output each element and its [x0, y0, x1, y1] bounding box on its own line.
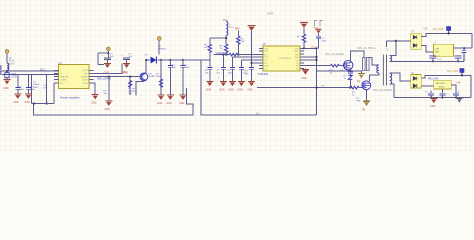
svg-text:U?: U? [59, 61, 63, 65]
wire E2 gate resistor [304, 65, 330, 67]
wire VCC to riser [304, 47, 316, 49]
cap col x241.4 [239, 60, 248, 81]
diode pack D5 upper (yellow) [411, 31, 422, 50]
ground tan (PE snubber) [357, 71, 365, 84]
wire DTC [232, 56, 263, 58]
svg-text:VIN VOUT: VIN VOUT [436, 83, 447, 85]
svg-text:PE: PE [362, 108, 366, 111]
power flag (+15V) [447, 27, 451, 35]
cap col x209.8 lower [205, 60, 212, 81]
svg-text:VCC_AUX: VCC_AUX [447, 70, 459, 73]
cap x465.4 (lower blk) [451, 85, 462, 103]
ground (E1 pin) [301, 69, 309, 80]
svg-text:CS: CS [340, 69, 344, 71]
svg-text:BUS_AS_HVRET: BUS_AS_HVRET [374, 89, 393, 92]
wire N line [2, 73, 59, 75]
svg-text:VCC_P15: VCC_P15 [433, 28, 444, 31]
transformer secondary upper [390, 55, 392, 61]
svg-text:GND: GND [105, 108, 111, 111]
svg-text:250V: 250V [9, 62, 15, 65]
wire source return [317, 70, 362, 72]
svg-text:VDD: VDD [83, 70, 88, 72]
ground (cap A) [14, 94, 21, 99]
svg-text:GND/PE: GND/PE [60, 77, 69, 79]
svg-text:(CONTROL): (CONTROL) [279, 58, 291, 60]
wire top divider link [210, 37, 226, 39]
svg-text:House regulator: House regulator [60, 95, 80, 99]
wire into D5 [386, 40, 410, 42]
svg-text:AC_L: AC_L [40, 68, 47, 71]
svg-text:REF: REF [235, 29, 240, 31]
gnd bus under IC1 [31, 103, 54, 105]
svg-text:VREF: VREF [267, 13, 274, 16]
transformer secondary lower [390, 73, 392, 84]
cap leg x184.5 [181, 59, 191, 95]
cap col x223.3 [216, 54, 225, 82]
X-cap C column B (x28.4) [26, 74, 36, 94]
svg-text:GND: GND [248, 88, 254, 91]
svg-text:GND: GND [91, 102, 97, 105]
cap column x31.3 [31, 74, 40, 103]
wire VDD riser [89, 63, 122, 73]
svg-text:12V: 12V [122, 71, 127, 74]
wire Q1 collector [145, 60, 147, 73]
DRAIN wire with red label [89, 76, 139, 78]
regulator U3 (yellow) [428, 79, 451, 89]
svg-text:VSENSE_A: VSENSE_A [216, 52, 229, 55]
wire drain to primary [369, 58, 379, 66]
svg-text:+5V: +5V [456, 83, 461, 85]
wire secondary lower top tap [390, 73, 411, 81]
cap x458.2 (upper blk) [455, 56, 467, 63]
wire D6 out to +rail lower [421, 75, 471, 77]
connector J1 (AC inlet, cut at sheet edge) [0, 50, 15, 75]
wire D5 out lower to filter [421, 46, 433, 53]
resistor R x238.3 [235, 29, 245, 56]
power flag lower [460, 69, 464, 77]
wire secondary top tap [390, 41, 396, 56]
svg-text:GND: GND [430, 105, 436, 108]
cap x445.3 (lower blk) [439, 89, 449, 99]
cap x432.8 (upper blk) [429, 56, 443, 63]
ground (AC entry) [4, 80, 11, 85]
svg-text:GND: GND [104, 71, 110, 74]
svg-text:100u: 100u [229, 27, 235, 29]
svg-text:100n: 100n [437, 59, 443, 61]
svg-text:GND: GND [24, 101, 30, 104]
inductor L1 (series choke) [7, 63, 9, 70]
svg-text:GND: GND [264, 66, 269, 68]
svg-text:BUS_AS_HVDC+: BUS_AS_HVDC+ [358, 47, 377, 50]
ground (x232.4) [229, 81, 236, 86]
IC U2 TL594 PWM controller [258, 42, 305, 76]
svg-text:100n: 100n [228, 72, 234, 74]
return wire upper blk [393, 60, 464, 62]
riser bus (emitters) [316, 48, 318, 115]
svg-text:U?: U? [263, 42, 267, 46]
svg-text:GND: GND [83, 83, 88, 85]
wire L line [0, 70, 59, 72]
svg-text:100n: 100n [321, 40, 327, 42]
rail jog to divider [157, 59, 209, 61]
cap x428.2 (lower blk) [425, 91, 434, 99]
transistor Q2 MOSFET high [344, 61, 353, 70]
transformer core [382, 55, 384, 86]
net label top right of IC [315, 21, 318, 27]
filter module L2 (yellow) [434, 42, 454, 56]
ground (x223.3) [220, 81, 227, 86]
ground (IC1 right) [92, 95, 99, 100]
ground (x209.8) [206, 81, 213, 86]
svg-text:TL594CN: TL594CN [258, 73, 269, 76]
node drain-div [108, 76, 110, 78]
svg-text:DTC: DTC [264, 57, 269, 59]
power port VCC col x304 [297, 23, 308, 50]
X-cap C column A (x17) [15, 74, 24, 94]
snubber R column [363, 58, 370, 71]
bottom return bus [34, 88, 193, 115]
svg-text:1nF: 1nF [43, 88, 47, 90]
svg-text:UF4007: UF4007 [158, 48, 167, 50]
wire feedback into IC pin 1IN+ [214, 54, 229, 56]
svg-text:GND: GND [228, 88, 234, 91]
ground (divider) [105, 101, 112, 106]
svg-text:CM: CM [435, 48, 439, 50]
cap column x46.7 [43, 74, 48, 104]
wire GND pin right [89, 83, 95, 95]
svg-text:100n: 100n [19, 89, 25, 91]
svg-text:FILT: FILT [435, 51, 440, 53]
wire Q3 source [366, 90, 368, 102]
wire PE drop [6, 53, 8, 71]
wire gate low w/ resistor [257, 87, 350, 89]
ground (cap x170) [167, 95, 174, 100]
svg-text:+15V: +15V [423, 29, 429, 31]
resistor series (on wire) [229, 53, 238, 56]
svg-text:1IN-: 1IN- [264, 51, 268, 53]
resistor leg x162.5 [156, 59, 163, 95]
cap column x53.8 [53, 83, 55, 104]
svg-text:GND: GND [157, 102, 163, 105]
svg-text:GND: GND [237, 88, 243, 91]
svg-text:COMP: COMP [60, 80, 67, 82]
ground (cap x183) [180, 95, 187, 100]
wire primary bottom [369, 73, 379, 81]
svg-text:GND: GND [3, 86, 9, 90]
ground (cap B) [25, 94, 32, 99]
svg-text:REG_P5V: REG_P5V [428, 79, 439, 81]
transistor Q3 MOSFET low [362, 81, 371, 90]
svg-text:VCC: VCC [295, 48, 300, 50]
resistor divider leg [104, 77, 109, 101]
wire Q2 source [349, 68, 351, 71]
svg-text:GND: GND [219, 88, 225, 91]
wire CT [241, 59, 263, 61]
wire D6 lower out to regulator [421, 85, 434, 87]
varistor RV1 [5, 71, 18, 79]
svg-text:DRAIN: DRAIN [81, 76, 88, 79]
IC U1 house regulator [54, 61, 94, 100]
ground (x241.4) [238, 81, 245, 86]
diode pack D6 lower (yellow) [411, 72, 422, 88]
svg-text:275V: 275V [12, 76, 18, 79]
svg-text:GND: GND [206, 88, 212, 91]
return rail lower blk [394, 97, 471, 99]
bulk cap C (pol) B [121, 53, 133, 74]
ground (x251.5) [248, 81, 255, 86]
node PE [6, 70, 8, 72]
decoupling cap above VCC wire [314, 28, 328, 48]
wire filter out [454, 47, 472, 49]
wire Q2 drain up [350, 51, 364, 63]
svg-text:PE: PE [357, 81, 361, 84]
ground (lower blk) [430, 98, 437, 103]
svg-text:SD/S: SD/S [82, 80, 88, 82]
svg-text:GND: GND [166, 102, 172, 105]
resistor leg x130 [129, 76, 137, 96]
cap leg x172 [168, 59, 177, 95]
wire Q1 emitter [136, 81, 144, 96]
wire OC [304, 59, 316, 61]
wire right edge drop (lower blk) [470, 75, 472, 97]
svg-text:78L05: 78L05 [439, 87, 446, 89]
svg-text:1uF: 1uF [172, 67, 176, 69]
transistor Q1 (BJT) [139, 73, 156, 81]
sense cap + zener below source [344, 72, 353, 88]
power port VREF (bar) x251.5 [248, 26, 256, 68]
svg-text:GND: GND [13, 101, 19, 104]
inductor L vcc x226.2 [223, 19, 235, 56]
bulk cap C (pol) A [102, 53, 114, 74]
wire secondary mid-upper tap to return [390, 60, 393, 62]
wire D5 out to +rail [421, 33, 472, 36]
diode D blocking (blue) [145, 37, 167, 64]
ground (R x161) [158, 95, 165, 100]
svg-text:100n: 100n [185, 67, 191, 69]
no-ERC marker (tan circle) over VDD [97, 53, 99, 64]
transformer T1 primary winding [377, 65, 379, 73]
HV stub [98, 63, 104, 65]
wire RT [252, 62, 264, 64]
wire secondary bottom tap [390, 84, 395, 98]
svg-text:BUS_AS_DRIVE: BUS_AS_DRIVE [326, 53, 344, 56]
svg-text:0V: 0V [256, 111, 260, 115]
svg-text:400V: 400V [33, 87, 39, 89]
svg-text:GND: GND [179, 102, 185, 105]
wire 2IN- [304, 56, 316, 58]
cap col x232.4 [228, 57, 235, 81]
ground tan (Q3 source) [363, 101, 370, 106]
resistor R upper-div x209.8 [204, 38, 223, 60]
svg-text:GND: GND [301, 77, 307, 80]
cap x251.5 to gnd [245, 68, 254, 82]
